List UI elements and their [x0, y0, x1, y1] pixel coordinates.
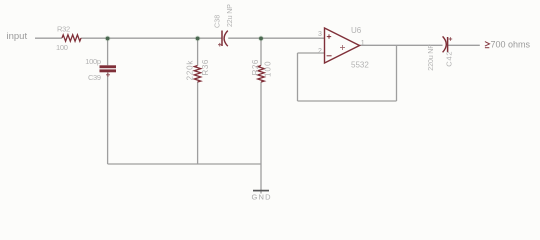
wire C42 to output net — [448, 44, 480, 46]
svg-text:U6: U6 — [351, 26, 362, 35]
op-amp U6 origin cross — [340, 45, 345, 50]
svg-text:220u NP: 220u NP — [426, 44, 435, 71]
ground symbol GND — [253, 190, 269, 192]
wire R26 bottom to ground bus — [260, 82, 262, 164]
svg-text:100: 100 — [264, 60, 273, 77]
svg-text:R32: R32 — [57, 25, 70, 34]
wire node C down to R26 top — [260, 38, 262, 65]
node B junction dot — [195, 36, 201, 42]
svg-text:C39: C39 — [88, 73, 101, 82]
node A junction dot — [105, 36, 111, 42]
svg-text:5532: 5532 — [351, 60, 369, 69]
svg-text:input: input — [7, 31, 28, 42]
svg-text:GND: GND — [252, 192, 272, 201]
wire feedback bottom horizontal — [298, 100, 397, 102]
wire C38 right plate to op-amp pin 3 — [228, 37, 324, 39]
resistor R26 — [258, 66, 264, 83]
wire ground bus to GND symbol — [260, 164, 262, 194]
wire op-amp pin 2 feedback horizontal — [298, 52, 325, 54]
capacitor C42 — [443, 36, 448, 52]
op-amp U6 minus input mark — [327, 55, 332, 57]
capacitor C39 origin cross — [106, 73, 110, 77]
capacitor C38 polarity plus — [218, 43, 222, 47]
op-amp U6 — [325, 28, 360, 63]
wire feedback left vertical — [297, 53, 299, 101]
resistor R32 — [62, 35, 81, 41]
resistor R36 — [194, 66, 200, 83]
wire R32 to C38 left plate — [81, 37, 222, 39]
svg-text:22u NP: 22u NP — [225, 4, 234, 27]
wire R36 bottom to ground bus — [197, 82, 199, 164]
wire feedback right vertical — [396, 45, 398, 101]
svg-text:1: 1 — [361, 40, 365, 47]
capacitor C39 — [100, 65, 117, 72]
svg-text:3: 3 — [318, 31, 322, 38]
svg-text:100: 100 — [56, 43, 68, 52]
wire input net: input to R32 — [35, 37, 62, 39]
svg-text:C42: C42 — [444, 51, 453, 67]
svg-text:R36: R36 — [201, 59, 210, 75]
svg-text:R26: R26 — [251, 59, 260, 75]
wire node A down to C39 top — [107, 38, 109, 65]
svg-text:700 ohms: 700 ohms — [491, 39, 531, 49]
svg-text:220k: 220k — [185, 60, 194, 81]
wire node B down to R36 top — [197, 38, 199, 65]
svg-text:2: 2 — [318, 48, 322, 55]
op-amp U6 plus input mark — [327, 34, 331, 38]
capacitor C42 polarity plus — [449, 37, 453, 41]
wire op-amp output to C42 — [360, 44, 443, 46]
net label output greater-equal mark — [485, 42, 490, 48]
svg-text:C38: C38 — [212, 15, 221, 28]
capacitor C38 — [222, 31, 228, 47]
svg-text:100p: 100p — [85, 57, 101, 66]
node C junction dot — [258, 36, 264, 42]
wire ground bus horizontal — [108, 163, 261, 165]
wire C39 bottom to ground bus — [107, 72, 109, 164]
